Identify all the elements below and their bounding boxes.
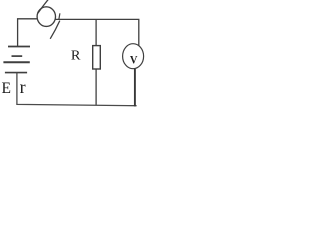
svg-text:V: V [130,53,138,67]
svg-text:r: r [20,77,26,97]
svg-text:E: E [2,80,11,97]
svg-text:R: R [71,48,81,63]
